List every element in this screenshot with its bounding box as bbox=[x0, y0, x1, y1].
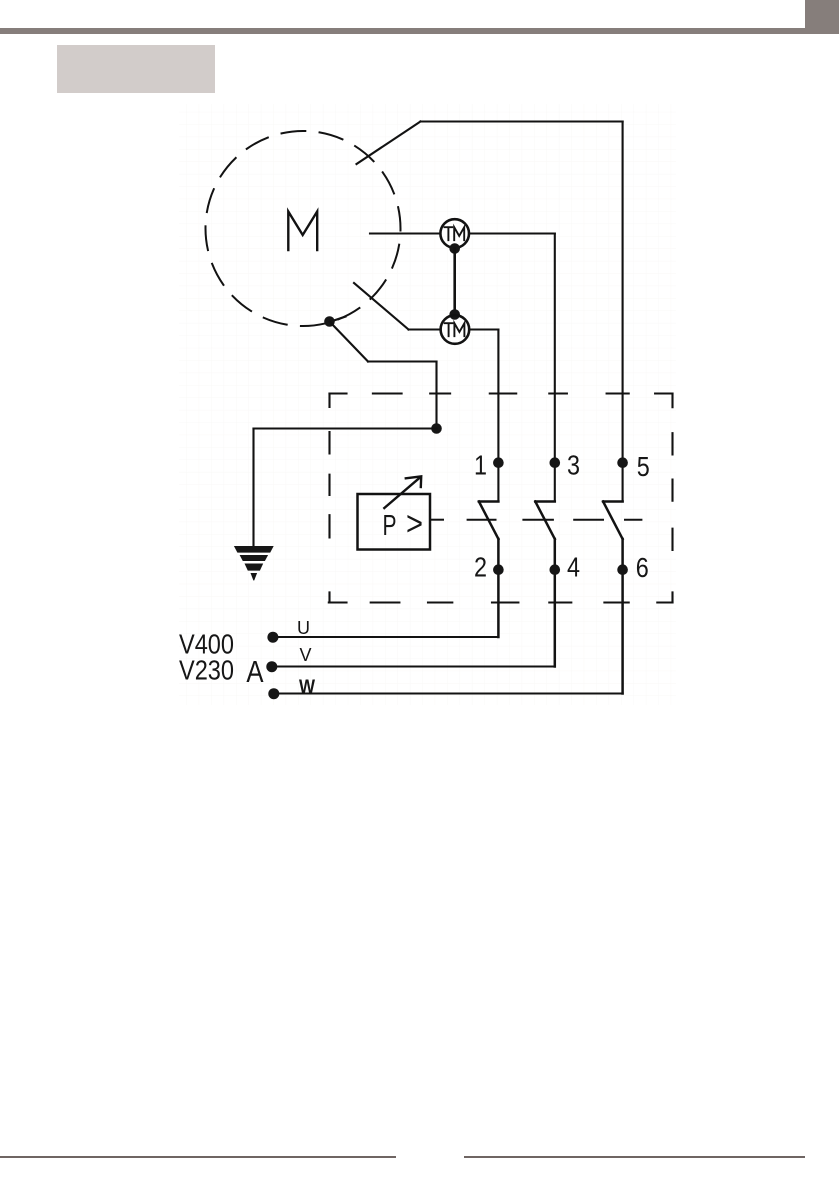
svg-text:A: A bbox=[246, 655, 263, 690]
terminal dot 5 bbox=[617, 457, 628, 468]
wire W-phase right vertical to contact 5 bbox=[622, 122, 624, 502]
junction dot earth route bbox=[431, 423, 442, 434]
page header corner block bbox=[805, 0, 839, 34]
contact 3-4 blade bbox=[535, 502, 555, 667]
wire phase V row bbox=[272, 665, 555, 667]
svg-text:5: 5 bbox=[637, 451, 650, 482]
wire phase W row bbox=[274, 692, 623, 694]
contact 5-6 blade bbox=[603, 502, 623, 694]
wire TM1 to TM2 link bbox=[453, 249, 456, 315]
wire earth diagonal bbox=[330, 322, 369, 362]
section title placeholder box bbox=[57, 45, 215, 93]
wire motor winding diagonal bbox=[354, 283, 409, 330]
mechanical link dashed line bbox=[430, 519, 641, 521]
page header rule bbox=[0, 28, 839, 34]
svg-text:V230: V230 bbox=[179, 655, 234, 686]
pressure sensor P> box bbox=[358, 494, 431, 550]
terminal dot W bbox=[268, 688, 279, 699]
wire motor to TM1 bbox=[370, 232, 440, 234]
motor letter M bbox=[288, 212, 317, 251]
svg-text:V: V bbox=[299, 645, 311, 665]
adjustment arrow head bbox=[406, 476, 421, 487]
svg-text:3: 3 bbox=[567, 450, 580, 481]
adjustment arrow shaft bbox=[384, 478, 420, 509]
svg-text:>: > bbox=[406, 505, 423, 543]
terminal dot U bbox=[267, 632, 278, 643]
footer rule right bbox=[464, 1156, 805, 1158]
wire earth horizontal to left bbox=[254, 427, 437, 429]
junction dot on motor frame (earth tap) bbox=[324, 316, 335, 327]
terminal dot 4 bbox=[550, 564, 561, 575]
wire TM2 to contact 1 horizontal bbox=[469, 328, 498, 330]
svg-text:U: U bbox=[297, 618, 310, 638]
wire down to contact 1 bbox=[497, 330, 499, 502]
terminal dot 1 bbox=[493, 457, 504, 468]
wire TM2 left stub bbox=[409, 328, 441, 330]
junction dot TM2 top bbox=[449, 309, 460, 320]
svg-text:W: W bbox=[299, 677, 315, 698]
contact 1-2 blade bbox=[479, 502, 499, 638]
wire phase U row bbox=[273, 636, 499, 638]
wire W-phase diagonal from motor bbox=[357, 122, 421, 165]
wire TM1 to contact 3 horizontal bbox=[469, 232, 555, 234]
wire earth drop to ground bbox=[252, 429, 254, 547]
svg-text:1: 1 bbox=[474, 450, 487, 481]
thermal switch TM2 bbox=[441, 315, 470, 344]
terminal dot 2 bbox=[493, 564, 504, 575]
wire earth horizontal upper bbox=[368, 360, 437, 362]
svg-text:4: 4 bbox=[567, 552, 580, 583]
footer rule left bbox=[0, 1156, 396, 1158]
terminal dot 3 bbox=[550, 457, 561, 468]
pressure switch enclosure (dashed box) bbox=[329, 394, 673, 603]
svg-text:P: P bbox=[383, 510, 397, 542]
wire W-phase top horizontal bbox=[421, 120, 623, 122]
wire earth vertical short bbox=[435, 362, 437, 429]
terminal dot 6 bbox=[617, 564, 628, 575]
junction dot TM1 bottom bbox=[449, 243, 460, 254]
motor frame dash stub at earth tap bbox=[330, 317, 346, 322]
svg-text:2: 2 bbox=[474, 552, 487, 583]
terminal dot V bbox=[266, 661, 277, 672]
thermal switch TM1 bbox=[440, 219, 469, 248]
wire down to contact 3 bbox=[554, 234, 556, 502]
ground symbol bbox=[234, 546, 274, 581]
scanned graph-paper background bbox=[179, 104, 676, 705]
svg-text:6: 6 bbox=[636, 552, 649, 583]
motor M circle (dashed) bbox=[206, 131, 401, 326]
